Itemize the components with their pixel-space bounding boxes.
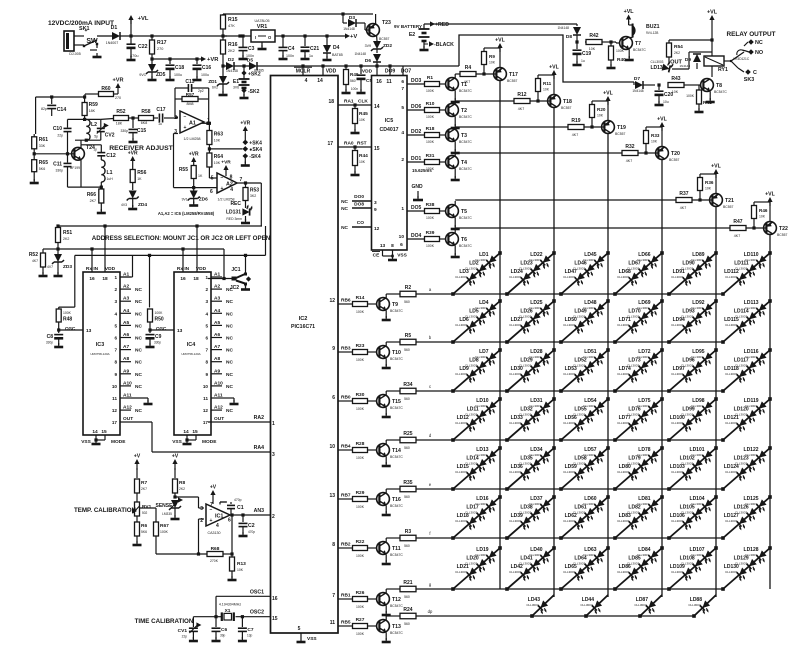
resistor R10 100K <box>425 108 440 113</box>
svg-text:A4: A4 <box>214 308 220 314</box>
svg-text:C9: C9 <box>155 334 162 340</box>
svg-text:2: 2 <box>272 514 275 520</box>
LED LD14 <box>475 459 490 474</box>
svg-text:BC547C: BC547C <box>390 553 403 557</box>
svg-text:CLL3003: CLL3003 <box>671 323 684 327</box>
svg-text:82p: 82p <box>41 107 47 111</box>
ground T6 <box>454 245 456 255</box>
IC2 pin 9 RB3 <box>338 351 352 353</box>
resistor R14 100K <box>353 302 368 307</box>
svg-text:BC557: BC557 <box>777 233 787 237</box>
svg-text:3: 3 <box>114 299 117 304</box>
svg-text:BC547C: BC547C <box>390 406 403 410</box>
svg-text:15: 15 <box>192 429 198 435</box>
resistor R13 <box>230 552 233 555</box>
svg-text:100K: 100K <box>356 310 365 314</box>
svg-text:CLK: CLK <box>358 99 368 105</box>
svg-text:1K: 1K <box>137 177 142 181</box>
svg-text:NC: NC <box>135 299 142 305</box>
svg-text:ZD6: ZD6 <box>199 197 208 203</box>
wire diagonal LD98-LD100 <box>669 399 716 440</box>
LED LD109 <box>681 568 696 583</box>
svg-text:100K: 100K <box>356 632 365 636</box>
LED LD41 <box>529 559 544 574</box>
relay contacts <box>724 60 731 62</box>
svg-text:4K7: 4K7 <box>734 234 740 238</box>
svg-text:R8: R8 <box>179 480 185 486</box>
capacitor C9 <box>148 328 151 331</box>
LED LD54 <box>592 401 607 416</box>
wire diagonal LD45-LD47 <box>561 253 608 294</box>
svg-text:R22: R22 <box>356 539 365 545</box>
wire diagonal LD81-LD83 <box>615 497 662 538</box>
LED LD37 <box>538 499 553 514</box>
resistor R33 10K <box>644 131 649 144</box>
svg-text:2: 2 <box>114 287 117 292</box>
svg-text:4K7: 4K7 <box>464 80 470 84</box>
svg-text:R15: R15 <box>228 17 238 23</box>
LED LD97 <box>681 370 696 385</box>
wire diagonal LD25-LD27 <box>507 301 554 342</box>
wire diagonal LD63-LD65 <box>561 548 608 589</box>
svg-text:22p: 22p <box>182 635 188 639</box>
svg-text:A8: A8 <box>214 356 220 362</box>
LED LD32 <box>529 410 544 425</box>
resistor R30 100K <box>353 399 368 404</box>
svg-text:R16: R16 <box>228 42 238 48</box>
svg-text:6: 6 <box>205 336 208 341</box>
transistor T10 <box>377 346 390 359</box>
LED LD30 <box>519 370 534 385</box>
svg-text:BC557: BC557 <box>379 37 389 41</box>
svg-text:10K: 10K <box>543 88 550 92</box>
svg-text:A12: A12 <box>214 405 223 411</box>
zener ZD3 <box>54 254 62 262</box>
svg-text:RB1: RB1 <box>341 593 351 599</box>
LED LD103 <box>681 468 696 483</box>
op-amp A2 <box>217 173 237 193</box>
svg-text:47K: 47K <box>228 24 235 28</box>
svg-text:CV1: CV1 <box>178 628 188 634</box>
transistor T14 <box>377 444 390 457</box>
svg-text:560: 560 <box>404 348 410 352</box>
LED LD62 <box>573 517 588 532</box>
svg-text:CLL3003: CLL3003 <box>455 519 468 523</box>
wire diagonal LD16-LD18 <box>453 497 500 538</box>
LED LD13 <box>484 450 499 465</box>
LED LD111 <box>745 264 760 279</box>
svg-text:OUT: OUT <box>214 416 224 422</box>
svg-text:R34: R34 <box>403 382 412 388</box>
LED LD9 <box>465 370 480 385</box>
svg-text:RECEIVER ADJUST: RECEIVER ADJUST <box>109 145 173 152</box>
zener ZD2 <box>376 36 378 41</box>
svg-text:10K: 10K <box>759 215 766 219</box>
svg-text:BC547C: BC547C <box>633 48 646 52</box>
svg-text:NC: NC <box>226 299 233 305</box>
resistor R38 100K <box>425 209 440 214</box>
svg-text:R23: R23 <box>356 343 365 349</box>
wire A2 pin6 <box>194 187 217 189</box>
svg-text:9V4-12B: 9V4-12B <box>646 31 658 35</box>
LED LD93 <box>691 312 706 327</box>
svg-text:R66: R66 <box>87 192 96 198</box>
svg-text:CLL3003: CLL3003 <box>580 603 593 607</box>
svg-text:100K: 100K <box>426 115 435 119</box>
ground R66 <box>100 209 102 213</box>
regulator VR1 UA78L05 <box>251 30 275 42</box>
wire T18 base feed <box>455 100 514 102</box>
svg-text:E2: E2 <box>409 32 415 38</box>
svg-text:+VL: +VL <box>495 38 505 44</box>
svg-text:DO4: DO4 <box>411 233 422 239</box>
LED LD85 <box>637 559 652 574</box>
wire IC4 OUT to RA2 <box>208 421 270 423</box>
svg-text:UM3758-120A: UM3758-120A <box>181 352 200 356</box>
svg-text:NC: NC <box>226 348 233 354</box>
wire diagonal LD72-LD74 <box>615 350 662 391</box>
svg-text:100n: 100n <box>246 54 254 58</box>
svg-text:10K: 10K <box>672 90 679 94</box>
svg-text:16: 16 <box>272 596 278 602</box>
svg-text:R30: R30 <box>356 392 365 398</box>
svg-text:R67: R67 <box>160 523 169 529</box>
LED LD112 <box>735 273 750 288</box>
wire T20 base feed <box>455 152 622 154</box>
svg-text:270K: 270K <box>210 559 219 563</box>
svg-text:3: 3 <box>205 299 208 304</box>
svg-text:NC: NC <box>135 384 142 390</box>
capacitor C10 <box>67 119 69 127</box>
svg-text:T3: T3 <box>461 133 467 139</box>
wire diagonal LD116-LD118 <box>723 350 770 391</box>
LED LD75 <box>646 401 661 416</box>
svg-text:R56: R56 <box>137 170 146 176</box>
svg-text:16: 16 <box>89 276 95 282</box>
LED LD6 <box>465 321 480 336</box>
svg-text:R37: R37 <box>679 191 688 197</box>
wire T9 collector <box>385 294 387 298</box>
wire diagonal LD34-LD36 <box>507 448 554 489</box>
connector -SK4 <box>243 153 249 159</box>
svg-text:A2: A2 <box>214 284 220 290</box>
svg-text:CLL3003: CLL3003 <box>617 323 630 327</box>
svg-text:R10: R10 <box>426 101 435 107</box>
svg-text:UA78L05: UA78L05 <box>255 19 270 23</box>
svg-text:R6: R6 <box>141 523 147 529</box>
svg-text:R36: R36 <box>705 180 714 185</box>
LED LD72 <box>646 352 661 367</box>
svg-text:14: 14 <box>374 104 380 110</box>
svg-text:BC547C: BC547C <box>459 140 472 144</box>
wire dp row line <box>433 615 694 617</box>
svg-text:R25: R25 <box>403 431 412 437</box>
svg-text:A12: A12 <box>123 405 132 411</box>
svg-text:BC557: BC557 <box>615 132 625 136</box>
svg-text:10K: 10K <box>359 118 366 122</box>
svg-text:IC3: IC3 <box>96 342 104 348</box>
svg-text:10K: 10K <box>359 160 366 164</box>
wire diagonal LD84-LD86 <box>615 548 662 589</box>
svg-text:dp: dp <box>428 609 433 614</box>
svg-text:1uH: 1uH <box>107 177 114 181</box>
power +VL T20 <box>646 126 662 128</box>
svg-text:10u: 10u <box>663 100 669 104</box>
svg-text:CLL3003: CLL3003 <box>509 323 522 327</box>
wire diagonal LD48-LD50 <box>561 301 608 342</box>
wire RA0 RST <box>338 146 372 148</box>
ground E2 <box>423 46 425 50</box>
svg-text:100K: 100K <box>426 216 435 220</box>
svg-text:CLL3003: CLL3003 <box>671 421 684 425</box>
wire diagonal LD113-LD115 <box>723 301 770 342</box>
svg-text:ADDRESS SELECTION: MOUNT JC1 O: ADDRESS SELECTION: MOUNT JC1 OR JC2 OR L… <box>92 235 271 242</box>
svg-text:560: 560 <box>404 300 410 304</box>
svg-text:15.625ms: 15.625ms <box>412 168 432 173</box>
svg-text:CD4017: CD4017 <box>379 127 398 133</box>
wire T3 collector <box>454 127 456 129</box>
svg-text:100K: 100K <box>356 456 365 460</box>
svg-text:+V: +V <box>134 454 141 460</box>
svg-text:6K8: 6K8 <box>141 121 147 125</box>
wire signal path <box>101 118 114 121</box>
LED LD76 <box>637 410 652 425</box>
svg-text:CA3130: CA3130 <box>208 531 221 535</box>
svg-text:+: + <box>85 28 88 34</box>
svg-text:CLL3003: CLL3003 <box>725 275 738 279</box>
resistor R26 100K <box>353 597 368 602</box>
svg-text:BC547C: BC547C <box>390 504 403 508</box>
LED LD2 <box>475 264 490 279</box>
svg-text:CLL3003: CLL3003 <box>617 470 630 474</box>
svg-text:+VR: +VR <box>189 152 199 158</box>
resistor R65 <box>32 160 37 172</box>
svg-text:BC557: BC557 <box>561 106 571 110</box>
wire diagonal LD69-LD71 <box>615 301 662 342</box>
svg-text:NC: NC <box>226 384 233 390</box>
svg-text:NC: NC <box>341 206 348 212</box>
svg-text:Rx IN: Rx IN <box>86 266 99 272</box>
resistor R40 <box>609 46 614 60</box>
svg-text:R20: R20 <box>597 107 606 112</box>
svg-text:-BLACK: -BLACK <box>434 42 454 48</box>
resistor R7 <box>136 468 138 478</box>
capacitor C17 <box>158 114 160 123</box>
svg-text:12: 12 <box>329 298 335 304</box>
IC2 pin 8 RB2 <box>338 547 352 549</box>
svg-text:OSC: OSC <box>65 326 76 332</box>
svg-text:BC557: BC557 <box>723 205 733 209</box>
LED LD47 <box>573 273 588 288</box>
svg-text:NC: NC <box>135 408 142 414</box>
transistor T4 <box>446 156 459 169</box>
svg-text:BC547C: BC547C <box>459 244 472 248</box>
svg-text:100K: 100K <box>686 94 695 98</box>
svg-text:NC: NC <box>135 372 142 378</box>
wire A1 feedback <box>208 99 210 123</box>
svg-text:CLL3003: CLL3003 <box>455 470 468 474</box>
svg-text:1: 1 <box>401 206 404 212</box>
wire column 3 <box>607 133 609 597</box>
wire diagonal LD122-LD124 <box>723 448 770 489</box>
svg-text:+VL: +VL <box>624 9 635 15</box>
svg-text:BC557: BC557 <box>669 158 679 162</box>
svg-text:4K7: 4K7 <box>680 206 686 210</box>
svg-text:9: 9 <box>114 372 117 377</box>
wire column 4 <box>661 159 663 597</box>
svg-text:1: 1 <box>205 275 208 280</box>
svg-text:D9: D9 <box>685 57 691 63</box>
svg-text:13p: 13p <box>247 634 253 638</box>
svg-text:1N4148: 1N4148 <box>557 26 569 30</box>
IC5 DO0 pin 3 NC <box>352 200 372 202</box>
LED LD129 <box>745 559 760 574</box>
diode D8 <box>576 24 578 26</box>
svg-text:4: 4 <box>230 187 233 193</box>
svg-text:4K7: 4K7 <box>626 159 632 163</box>
resistor R17 <box>150 40 155 54</box>
LED LD79 <box>637 459 652 474</box>
svg-text:Rx IN: Rx IN <box>177 266 190 272</box>
svg-text:8: 8 <box>114 360 117 365</box>
svg-text:10: 10 <box>203 384 209 389</box>
svg-text:CLL3003: CLL3003 <box>509 570 522 574</box>
LED LD4 <box>484 303 499 318</box>
svg-text:3K2: 3K2 <box>250 194 256 198</box>
IC2 MCLR pin 4 <box>302 66 304 76</box>
svg-text:470p: 470p <box>248 530 255 534</box>
ground R65 <box>33 179 35 183</box>
svg-text:CLL3003: CLL3003 <box>617 275 630 279</box>
svg-text:A1: A1 <box>189 121 196 127</box>
LED LD115 <box>735 321 750 336</box>
wire diagonal LD92-LD94 <box>669 301 716 342</box>
transistor T2 <box>446 104 459 117</box>
resistor R51 <box>56 228 61 243</box>
svg-text:GND: GND <box>411 184 423 190</box>
svg-text:R2: R2 <box>405 285 412 291</box>
resistor R55 <box>191 166 196 179</box>
wire diagonal LD101-LD103 <box>669 448 716 489</box>
svg-text:7: 7 <box>401 86 404 92</box>
svg-text:R46: R46 <box>759 208 768 213</box>
svg-text:T5: T5 <box>461 209 467 215</box>
svg-text:9V BATTERY: 9V BATTERY <box>394 24 422 29</box>
op-amp A1 <box>180 111 204 133</box>
LED LD56 <box>573 419 588 434</box>
power +VR R56 <box>132 159 134 165</box>
svg-text:CE: CE <box>373 253 380 259</box>
svg-text:5: 5 <box>114 323 117 328</box>
LED LD28 <box>538 352 553 367</box>
LED LD117 <box>745 361 760 376</box>
svg-text:NC: NC <box>135 348 142 354</box>
svg-text:1K: 1K <box>198 174 203 178</box>
diode D9 <box>688 52 690 69</box>
resistor R57 <box>175 116 178 118</box>
svg-text:R11: R11 <box>543 81 552 86</box>
capacitor C13 <box>174 88 176 99</box>
svg-text:8: 8 <box>205 360 208 365</box>
resistor R68 <box>156 553 207 555</box>
svg-text:DO5: DO5 <box>411 205 422 211</box>
resistor R1 100K <box>425 82 440 87</box>
svg-text:RELAY OUTPUT: RELAY OUTPUT <box>726 31 775 38</box>
ground T7 <box>628 49 630 58</box>
svg-text:A11: A11 <box>123 393 132 399</box>
svg-text:A9: A9 <box>214 368 220 374</box>
svg-text:2: 2 <box>200 518 203 524</box>
zener ZD4 <box>129 191 137 199</box>
LED LD88 <box>698 600 713 615</box>
svg-text:R47: R47 <box>733 219 742 225</box>
wire tank bottom <box>75 139 101 141</box>
svg-text:CLL3003: CLL3003 <box>617 570 630 574</box>
svg-text:+VR: +VR <box>207 57 219 63</box>
svg-text:+VR: +VR <box>240 121 250 127</box>
svg-text:3: 3 <box>374 200 377 206</box>
zener ZD1 <box>219 76 227 84</box>
wire relay to T8 <box>711 66 713 77</box>
diode D3 <box>342 14 344 23</box>
wire T17 base feed <box>455 73 460 75</box>
LED LD121 <box>735 419 750 434</box>
LED LD116 <box>754 352 769 367</box>
wire diagonal LD7-LD9 <box>453 350 500 391</box>
wire matrix row lines <box>433 293 723 295</box>
svg-text:BC557: BC557 <box>507 79 517 83</box>
resistor R8 <box>174 468 176 478</box>
svg-text:330p: 330p <box>120 129 128 133</box>
zener ZD5 <box>148 64 156 72</box>
transistor T21 <box>710 194 723 207</box>
resistor R16 <box>221 40 226 54</box>
wire diagonal LD4-LD6 <box>453 301 500 342</box>
svg-text:SK3: SK3 <box>744 77 755 83</box>
svg-text:R32: R32 <box>625 144 634 150</box>
svg-text:T18: T18 <box>563 99 572 105</box>
svg-text:+VR: +VR <box>112 78 123 84</box>
svg-text:+VR: +VR <box>128 151 138 157</box>
svg-text:T17: T17 <box>509 72 518 78</box>
svg-text:T19: T19 <box>617 125 626 131</box>
IC5 DO8 pin 9 NC <box>352 207 372 209</box>
svg-text:A7: A7 <box>123 344 129 350</box>
ground T11 <box>385 554 387 562</box>
svg-text:10: 10 <box>399 234 405 240</box>
svg-text:CLL3003: CLL3003 <box>526 603 539 607</box>
potentiometer RV1 <box>135 502 140 516</box>
svg-text:CLL3003: CLL3003 <box>725 470 738 474</box>
ground T15 <box>385 407 387 415</box>
svg-text:C2: C2 <box>248 523 255 529</box>
svg-text:2K2: 2K2 <box>228 49 235 53</box>
svg-text:R1: R1 <box>427 75 433 81</box>
capacitor C20 <box>657 83 660 86</box>
svg-text:LM335: LM335 <box>162 512 172 516</box>
resistor R11 10K <box>536 79 541 92</box>
svg-text:10K: 10K <box>489 61 496 65</box>
svg-text:+SK2: +SK2 <box>248 72 261 78</box>
svg-text:NC: NC <box>341 199 348 205</box>
svg-text:2K2: 2K2 <box>179 487 185 491</box>
ground T10 <box>385 358 387 366</box>
svg-text:1u: 1u <box>158 122 162 126</box>
resistor R28 100K <box>353 448 368 453</box>
svg-text:17: 17 <box>112 420 118 425</box>
wire A1 plus input <box>175 133 178 135</box>
power +VR R55 <box>193 160 195 166</box>
